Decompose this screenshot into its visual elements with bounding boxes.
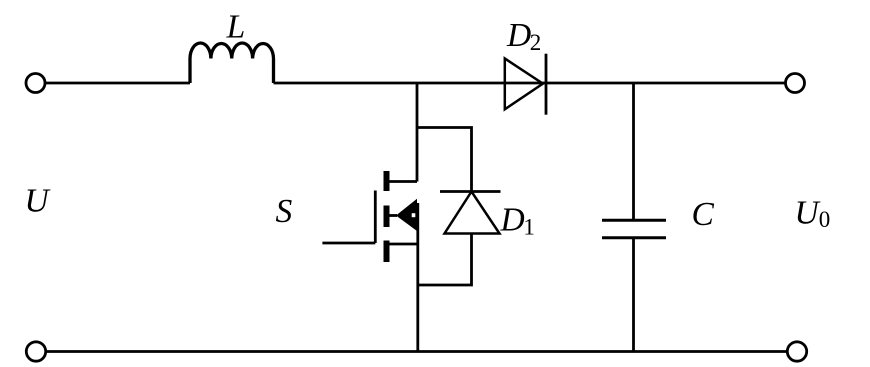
- transistor S arrow notch: [412, 213, 416, 217]
- diode D2 triangle: [505, 59, 543, 110]
- transistor S body arrow: [396, 199, 417, 231]
- diode D1 cathode bar: [440, 190, 501, 193]
- transistor S gate line: [374, 191, 377, 244]
- terminal bottom-left: [26, 342, 45, 361]
- transistor S source bar: [384, 241, 390, 263]
- wire D1 bottom branch: [417, 234, 472, 286]
- capacitor C upper plate: [602, 219, 666, 222]
- svg-text:S: S: [276, 193, 293, 230]
- capacitor C lower plate: [602, 236, 666, 239]
- svg-text:C: C: [692, 196, 715, 233]
- wire D1 top branch: [417, 128, 472, 192]
- transistor S body bar: [384, 206, 390, 228]
- transistor S drain connect: [390, 180, 418, 183]
- svg-text:U: U: [25, 183, 52, 220]
- diode D1 triangle: [445, 192, 500, 234]
- transistor S drain bar: [384, 171, 390, 191]
- svg-text:D1: D1: [500, 202, 535, 240]
- inductor L: [190, 43, 274, 83]
- transistor S source connect: [390, 243, 418, 246]
- transistor S drain vertical wire: [416, 83, 419, 182]
- transistor S source vertical wire: [416, 203, 419, 352]
- svg-text:L: L: [226, 9, 246, 46]
- capacitor C bottom lead: [632, 238, 635, 352]
- wire top (inductor to output, passes through D2): [274, 82, 786, 85]
- terminal bottom-right: [787, 342, 806, 361]
- wire bottom rail: [46, 350, 787, 353]
- capacitor C top lead: [632, 83, 635, 220]
- wire top-left (input to inductor): [46, 82, 191, 85]
- svg-text:U0: U0: [795, 195, 831, 233]
- terminal top-left: [26, 74, 45, 93]
- transistor S body stub: [390, 214, 398, 217]
- terminal top-right: [786, 74, 805, 93]
- diode D2 cathode bar: [545, 54, 548, 115]
- svg-text:D2: D2: [506, 17, 541, 55]
- wire gate lead: [322, 242, 375, 245]
